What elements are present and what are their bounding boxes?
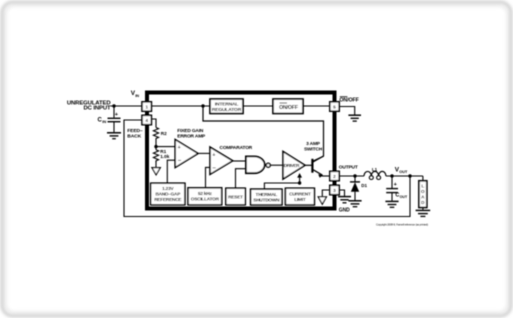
wire vin inner rail [151, 105, 210, 107]
svg-text:+: + [394, 182, 398, 188]
ground D1 [348, 201, 361, 207]
ground COUT [385, 201, 398, 207]
svg-text:OUT: OUT [399, 169, 408, 174]
bandgap reference box [151, 183, 185, 205]
wire regulator to onoff [243, 105, 273, 107]
node COUT junction [390, 174, 393, 177]
wire pin3 internal ground [322, 190, 330, 197]
svg-text:OUTPUT: OUTPUT [339, 164, 358, 170]
wire input line [111, 105, 152, 107]
ground CIN [107, 133, 121, 139]
svg-text:3: 3 [333, 188, 336, 194]
load resistor [422, 176, 424, 181]
wire reset to gate [236, 169, 247, 189]
svg-text:REFERENCE: REFERENCE [154, 197, 181, 202]
wire gate to driver [270, 164, 283, 166]
wire onoff to pin5 [303, 105, 330, 107]
op-amp error amp [175, 140, 198, 168]
node diode junction [353, 174, 356, 177]
wire pin5 external [339, 107, 355, 115]
svg-text:OSCILLATOR: OSCILLATOR [191, 197, 220, 202]
svg-text:SWITCH: SWITCH [304, 147, 323, 153]
wire emitter to pin2 [322, 175, 330, 177]
svg-text:RESET: RESET [228, 194, 243, 199]
svg-text:FEED–: FEED– [127, 128, 143, 134]
svg-text:O: O [421, 189, 425, 194]
node protection junction [298, 181, 301, 184]
NOR gate [246, 156, 265, 173]
svg-text:IN: IN [135, 93, 139, 98]
wire divider to amp [156, 146, 175, 148]
capacitor CIN [108, 106, 121, 132]
wire oscillator to comparator [206, 167, 211, 187]
svg-text:SHUTDOWN: SHUTDOWN [253, 198, 280, 203]
pin 5 [330, 102, 339, 111]
ground internal arrow [318, 197, 326, 204]
svg-text:ON/OFF: ON/OFF [339, 98, 359, 104]
pin 4 [142, 115, 151, 124]
wire vout line [386, 175, 423, 177]
svg-text:L: L [421, 183, 424, 188]
svg-text:4: 4 [145, 118, 148, 124]
svg-text:1: 1 [145, 105, 148, 111]
svg-text:D1: D1 [361, 183, 367, 188]
svg-text:ON/OFF: ON/OFF [279, 105, 298, 111]
svg-text:INTERNAL: INTERNAL [215, 101, 239, 107]
svg-text:52 kHz: 52 kHz [198, 191, 213, 196]
svg-text:LIMIT: LIMIT [294, 197, 306, 202]
resistor R2 [153, 128, 158, 140]
svg-text:CURRENT: CURRENT [289, 191, 311, 196]
wire collector feed [203, 106, 324, 162]
resistor R1 1.0k [153, 150, 158, 163]
op-amp comparator [210, 147, 233, 174]
ground divider arrow [152, 168, 160, 175]
svg-text:5: 5 [333, 105, 336, 111]
svg-text:2: 2 [333, 174, 336, 180]
svg-text:OUT: OUT [400, 195, 408, 199]
ground onoff pin [348, 115, 361, 121]
svg-text:DC INPUT: DC INPUT [83, 106, 111, 112]
arrow into driver [297, 173, 302, 178]
node inner vin junction [201, 104, 204, 107]
internal regulator U-REG box [210, 99, 243, 114]
svg-text:REGULATOR: REGULATOR [212, 107, 242, 113]
ON/OFF block [273, 99, 303, 114]
wire comparator to gate [233, 160, 247, 162]
svg-text:+: + [115, 112, 119, 118]
node feedback junction [408, 174, 411, 177]
diode D1 [354, 176, 356, 182]
svg-text:1.23V: 1.23V [162, 186, 174, 191]
pin 1 [142, 102, 151, 111]
svg-text:3 AMP: 3 AMP [306, 141, 321, 147]
wire amp to comparator [198, 152, 210, 154]
svg-text:1.0k: 1.0k [160, 154, 170, 159]
reset box [226, 188, 246, 205]
svg-text:BACK: BACK [127, 134, 141, 140]
svg-text:BAND–GAP: BAND–GAP [155, 192, 180, 197]
pin 3 [330, 185, 339, 194]
svg-text:ERROR AMP: ERROR AMP [177, 134, 206, 140]
ground load [416, 210, 431, 216]
svg-text:IN: IN [102, 119, 106, 124]
wire bandgap to amp [167, 160, 175, 183]
svg-text:+: + [178, 145, 181, 151]
node divider junction [154, 145, 157, 148]
svg-text:R2: R2 [161, 131, 167, 136]
oscillator box [188, 188, 222, 205]
wire pin4 to divider [151, 119, 156, 128]
ground GND pin [338, 197, 351, 203]
svg-text:THERMAL: THERMAL [256, 192, 278, 197]
capacitor COUT [391, 176, 393, 188]
pin 2 [330, 171, 339, 180]
wire pin3 external ground [339, 190, 344, 196]
IC body outline [147, 93, 335, 209]
svg-text:DRIVER: DRIVER [284, 163, 300, 168]
wire thermal shutdown / current limit to driver [264, 177, 299, 189]
svg-text:COMPARATOR: COMPARATOR [220, 145, 253, 151]
wire output line [339, 175, 364, 177]
thermal shutdown box [251, 189, 282, 205]
current limit box [285, 188, 314, 205]
node input junction [112, 104, 115, 107]
svg-text:Copyright 2008-9, Farnell refe: Copyright 2008-9, Farnell reference (as … [376, 222, 428, 226]
svg-text:+: + [212, 153, 215, 159]
driver buffer [283, 152, 305, 180]
svg-text:FIXED GAIN: FIXED GAIN [177, 128, 204, 134]
wire feedback loop [124, 120, 410, 217]
svg-text:GND: GND [339, 208, 350, 214]
